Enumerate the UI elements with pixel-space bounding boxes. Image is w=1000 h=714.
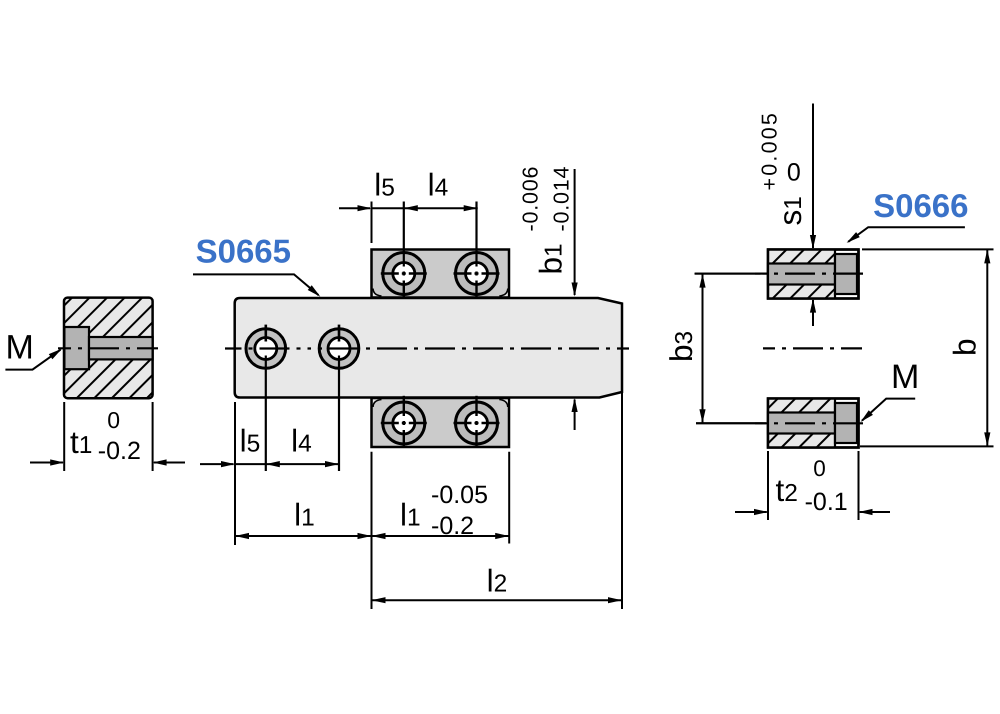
dimension b3 extension lines	[695, 273, 761, 275]
svg-text:t1: t1	[70, 424, 92, 460]
dimension l2 extension line right	[621, 393, 623, 609]
svg-text:l4: l4	[428, 167, 449, 203]
dimension b extension lines	[862, 248, 994, 250]
dimension t1 extension lines	[63, 402, 65, 471]
right view upper screw shaft	[768, 264, 835, 285]
bottom block corner fillet right	[499, 400, 508, 408]
dimension l5 l4 bottom extension lines	[234, 402, 236, 545]
center view: main rail bar	[235, 298, 622, 398]
leader S0666	[848, 227, 965, 242]
bottom block corner fillet left	[373, 400, 382, 408]
dimension s1 upper arrow	[812, 104, 814, 249]
bottom block hole 2 crosshair	[475, 396, 477, 416]
svg-text:-0.014: -0.014	[550, 166, 574, 232]
svg-text:l2: l2	[487, 563, 508, 599]
svg-text:S0665: S0665	[196, 232, 291, 269]
right view upper center line	[695, 273, 756, 275]
left view screw shaft	[89, 337, 153, 359]
right view lower screw shaft	[768, 413, 835, 434]
bottom block hole 2	[456, 402, 498, 444]
svg-text:M: M	[6, 328, 34, 366]
bar hole 1	[246, 329, 286, 369]
right view lower center line	[696, 422, 755, 424]
right view lower gib block	[768, 399, 859, 448]
dimension t2 extension lines	[767, 451, 769, 520]
svg-text:l5: l5	[240, 422, 261, 458]
svg-text:l1: l1	[400, 497, 421, 533]
left view screw head	[64, 327, 89, 369]
svg-text:b3: b3	[663, 331, 699, 362]
left view: nut block cross-section	[64, 298, 153, 399]
svg-text:-0.2: -0.2	[431, 512, 474, 540]
center view: bottom clamp block	[372, 398, 510, 447]
top block hole 2 crosshair	[475, 202, 477, 267]
svg-text:0: 0	[787, 159, 801, 187]
bar hole 2	[319, 329, 359, 369]
dimension b1 upper arrow	[574, 169, 576, 295]
svg-text:S0666: S0666	[873, 187, 968, 224]
svg-text:+0.005: +0.005	[758, 111, 782, 191]
dimension l5 l4 top extension line	[371, 202, 373, 244]
svg-text:M: M	[891, 358, 919, 396]
center view main axis center line	[225, 347, 308, 349]
svg-text:b: b	[947, 338, 983, 356]
dimension l2 line	[372, 599, 623, 601]
right view upper gib block	[768, 250, 859, 299]
dimension t2 arrows	[735, 511, 767, 513]
dimension l1 right line	[372, 535, 510, 537]
svg-text:l5: l5	[374, 167, 395, 203]
dimension b3 line	[702, 274, 704, 424]
center view: top clamp block	[372, 250, 510, 298]
bar hole 1 crosshair	[264, 325, 267, 342]
svg-text:-0.006: -0.006	[519, 166, 543, 232]
bottom block hole 1 crosshair	[403, 396, 405, 416]
bar hole 2 crosshair	[338, 325, 341, 342]
dimension s1 lower arrow	[812, 300, 814, 326]
svg-text:0: 0	[107, 407, 120, 433]
top block hole 1 crosshair	[403, 202, 405, 267]
dimension l1 left line	[235, 535, 372, 537]
dimension l1 right extension lines	[371, 452, 373, 609]
right view lower screw head	[835, 403, 857, 443]
top block hole 1	[383, 253, 425, 295]
dimension b1 lower arrow	[574, 400, 576, 431]
right view middle axis center line	[763, 347, 862, 349]
svg-text:-0.1: -0.1	[805, 488, 848, 516]
dimension b line	[986, 249, 988, 446]
svg-text:l1: l1	[294, 497, 315, 533]
svg-text:l4: l4	[291, 422, 312, 458]
leader S0665	[193, 274, 319, 295]
dimension t1 arrows	[30, 462, 63, 464]
svg-text:s1: s1	[772, 196, 808, 225]
leader M left	[5, 350, 60, 370]
bottom block hole 1	[383, 402, 425, 444]
right view upper screw head	[835, 254, 857, 294]
dimension l5 l4 bottom lines	[200, 463, 234, 465]
svg-text:b1: b1	[533, 243, 569, 274]
svg-text:t2: t2	[776, 472, 798, 508]
top block corner fillet right	[499, 289, 508, 297]
dimension l5 l4 top lines	[339, 207, 370, 209]
svg-text:0: 0	[813, 456, 826, 481]
left view center line	[58, 347, 158, 349]
top block corner fillet left	[373, 289, 382, 297]
leader M right	[862, 399, 915, 421]
svg-text:-0.05: -0.05	[431, 481, 488, 509]
top block hole 2	[456, 253, 498, 295]
svg-text:-0.2: -0.2	[98, 437, 141, 465]
